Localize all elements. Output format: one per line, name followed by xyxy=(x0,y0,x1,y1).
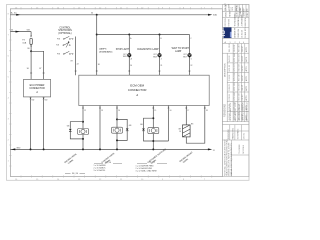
svg-text:GM RP: GM RP xyxy=(242,65,244,72)
svg-text:(STANDARD): (STANDARD) xyxy=(99,50,113,53)
node fuse branch xyxy=(30,50,32,52)
connector J1 ECU POWER CONNECTOR A xyxy=(24,79,51,97)
node K2 top xyxy=(116,118,118,120)
wire lamp rail xyxy=(97,34,190,36)
svg-text:ECM OEM: ECM OEM xyxy=(130,83,144,87)
svg-text:A: A xyxy=(35,91,38,94)
svg-text:A3: A3 xyxy=(246,9,249,11)
pin mark fuse top xyxy=(30,36,32,38)
wire lamps riser xyxy=(96,15,98,75)
svg-text:R8: R8 xyxy=(191,123,193,125)
svg-text:ECN 1044: ECN 1044 xyxy=(234,53,236,61)
wire K1 diode branch xyxy=(70,122,83,129)
wire aux return xyxy=(168,106,170,142)
svg-text:31: 31 xyxy=(160,65,162,67)
pin mark ECM bottom p4 xyxy=(153,107,155,109)
svg-text:3: 3 xyxy=(239,42,240,44)
ground bus wire xyxy=(10,148,208,150)
pin mark J1 out left xyxy=(30,98,32,100)
svg-text:REL 10-02: REL 10-02 xyxy=(229,43,231,52)
lamp column L3 wait to start lamp xyxy=(189,35,191,76)
svg-text:E 02-04: E 02-04 xyxy=(229,94,231,100)
heater R1 xyxy=(183,125,191,137)
node bus j1 xyxy=(30,148,32,150)
diode D1 xyxy=(69,129,72,131)
pin mark lamps riser xyxy=(96,70,98,72)
svg-text:17: 17 xyxy=(187,110,189,112)
pin mark ECM bottom p7 xyxy=(204,107,206,109)
svg-text:6: 6 xyxy=(191,58,192,60)
svg-text:4: 4 xyxy=(161,58,162,60)
svg-text:DRAWN RP: DRAWN RP xyxy=(234,27,237,38)
wire K1 diode return xyxy=(70,132,83,139)
svg-text:SHUTDOWN: SHUTDOWN xyxy=(58,30,72,32)
svg-text:W07: W07 xyxy=(183,57,187,59)
title block rotated texts xyxy=(223,3,249,176)
svg-text:GM RP: GM RP xyxy=(242,113,244,120)
svg-text:GM RP: GM RP xyxy=(242,94,244,101)
svg-text:GM RP: GM RP xyxy=(242,84,244,91)
svg-text:ECN 1562: ECN 1562 xyxy=(234,102,236,110)
svg-text:C 04-03: C 04-03 xyxy=(229,75,231,81)
svg-text:13: 13 xyxy=(101,110,103,112)
diode D3 xyxy=(142,128,145,130)
svg-text:REV DET: REV DET xyxy=(238,92,240,101)
svg-text:16: 16 xyxy=(179,131,181,133)
off-page arrow W2 xyxy=(16,31,20,33)
svg-text:TD-JD6068: TD-JD6068 xyxy=(239,145,241,154)
pin mark J1 pin87 xyxy=(43,72,45,74)
svg-text:ECN 1298: ECN 1298 xyxy=(234,73,236,81)
pin mark ECM bottom p6 xyxy=(186,107,188,109)
svg-text:LAMP: LAMP xyxy=(175,50,182,53)
svg-text:12: 12 xyxy=(84,110,86,112)
node bus j6 xyxy=(152,148,154,150)
lamp column L1 stop light xyxy=(128,35,130,76)
svg-text:10A: 10A xyxy=(22,41,26,44)
diode D2 xyxy=(126,128,129,130)
svg-text:1 = 14 GA PWR FEED: 1 = 14 GA PWR FEED xyxy=(136,164,155,167)
svg-text:REV DET: REV DET xyxy=(238,102,240,111)
svg-text:REV DET: REV DET xyxy=(238,63,240,72)
fuse F1 xyxy=(30,38,32,44)
pin mark ECM bottom p1 xyxy=(82,107,84,109)
wire J1 ground right xyxy=(43,97,45,149)
wire K2 diode return xyxy=(117,131,127,140)
svg-text:DIAGNOSTIC LAMP: DIAGNOSTIC LAMP xyxy=(137,48,159,51)
lamp L3 xyxy=(188,53,192,57)
lamp L2 xyxy=(158,53,162,57)
svg-text:2 = 16 GA BLK: 2 = 16 GA BLK xyxy=(94,167,107,170)
svg-text:6068 SFM: 6068 SFM xyxy=(245,17,247,26)
svg-text:ECN 1633: ECN 1633 xyxy=(234,112,236,120)
svg-text:4: 4 xyxy=(243,42,244,44)
svg-text:G 11-04: G 11-04 xyxy=(229,114,231,120)
svg-text:REV DET: REV DET xyxy=(238,111,240,120)
svg-text:SFM: SFM xyxy=(232,7,234,11)
svg-text:B+ 30: B+ 30 xyxy=(11,13,17,15)
pin mark fuse bottom xyxy=(30,45,32,47)
svg-text:18: 18 xyxy=(206,110,208,112)
svg-text:CONTROL: CONTROL xyxy=(59,27,71,29)
svg-text:APPR: APPR xyxy=(245,66,248,72)
node lamp2 xyxy=(159,34,161,36)
svg-text:30: 30 xyxy=(98,64,100,66)
svg-text:APPR: APPR xyxy=(245,95,248,101)
svg-text:REV DET: REV DET xyxy=(238,53,240,62)
svg-text:APPR: APPR xyxy=(245,105,248,111)
node K3 bottom xyxy=(152,140,154,142)
relay coil K3 xyxy=(148,128,159,134)
svg-text:F 06-04: F 06-04 xyxy=(229,104,231,110)
svg-text:(OPTIONAL): (OPTIONAL) xyxy=(58,32,71,35)
svg-text:MANUAL FOR TORQUE AND PINOUTS.: MANUAL FOR TORQUE AND PINOUTS. xyxy=(230,142,233,176)
svg-text:3 = 14 GA YEL: 3 = 14 GA YEL xyxy=(94,169,106,172)
svg-text:APPR: APPR xyxy=(245,114,248,120)
lamp column L2 diagnostic lamp xyxy=(159,35,161,76)
wire K1 main xyxy=(82,106,84,150)
node K1 top xyxy=(82,121,84,123)
svg-text:REVISIONS: REVISIONS xyxy=(224,104,227,117)
svg-text:GND: GND xyxy=(16,147,21,149)
node K1 bottom xyxy=(82,138,84,140)
wire node to connector pin xyxy=(30,51,32,79)
pin mark J1 pin30 xyxy=(30,72,32,74)
svg-text:MARINE ENG: MARINE ENG xyxy=(231,127,234,139)
svg-text:ECN 1355: ECN 1355 xyxy=(234,83,236,91)
svg-text:MARINE LLC: MARINE LLC xyxy=(237,15,240,27)
wire K2 main xyxy=(116,106,118,150)
svg-text:CHKD GM: CHKD GM xyxy=(238,29,240,38)
pin mark ECM bottom p2 xyxy=(99,107,101,109)
svg-text:30: 30 xyxy=(130,65,132,67)
svg-text:A 11-02: A 11-02 xyxy=(228,56,231,62)
wire K3 diode branch xyxy=(144,118,154,128)
relay coil K2 xyxy=(112,127,123,133)
svg-text:GM RP: GM RP xyxy=(242,45,244,52)
node K3 top xyxy=(152,117,154,119)
wire branch to second pin xyxy=(31,51,43,79)
svg-text:APPR: APPR xyxy=(245,56,248,62)
svg-text:ECN 1171: ECN 1171 xyxy=(234,63,236,71)
svg-text:STOP LIGHT: STOP LIGHT xyxy=(116,49,130,51)
relay coil K1 xyxy=(78,129,89,135)
svg-text:GM RP: GM RP xyxy=(242,104,244,111)
svg-text:30A: 30A xyxy=(213,14,217,17)
wire shutdown input xyxy=(75,37,77,76)
svg-text:15: 15 xyxy=(154,110,156,112)
sheet edge xyxy=(7,5,250,181)
svg-text:JOHN DEERE: JOHN DEERE xyxy=(242,14,244,27)
svg-text:DESCRIPTION: DESCRIPTION xyxy=(225,63,227,77)
node bus j3 xyxy=(82,148,84,150)
svg-text:GM RP: GM RP xyxy=(242,74,244,81)
harness label D xyxy=(179,151,195,165)
pin mark ECM bottom p5 xyxy=(168,107,170,109)
svg-text:TD: TD xyxy=(221,30,227,37)
pin mark J1 out right xyxy=(43,98,45,100)
svg-text:APPR: APPR xyxy=(245,85,248,91)
svg-text:2: 2 xyxy=(235,42,236,44)
node bus j4 xyxy=(99,148,101,150)
node W1/riser junction xyxy=(96,14,98,16)
off-page arrow bus right xyxy=(208,148,212,150)
off-page arrow bus left xyxy=(11,148,15,150)
svg-text:31: 31 xyxy=(213,150,215,152)
svg-text:APPR: APPR xyxy=(245,76,248,82)
svg-text:30: 30 xyxy=(91,13,93,15)
svg-text:32: 32 xyxy=(190,65,192,67)
node bus j5 xyxy=(116,148,118,150)
svg-text:12V DC: 12V DC xyxy=(243,132,245,139)
node bus j2 xyxy=(43,148,45,150)
svg-text:SCALE NTS: SCALE NTS xyxy=(244,27,247,38)
svg-text:ECN 1490: ECN 1490 xyxy=(234,92,236,100)
svg-text:36 | 14: 36 | 14 xyxy=(105,162,112,164)
wire R1 left xyxy=(185,106,187,125)
pin mark shutdown xyxy=(75,70,77,72)
wire J1 ground left xyxy=(30,97,32,149)
svg-text:14: 14 xyxy=(118,110,120,112)
harness label A xyxy=(64,152,80,166)
svg-text:LAMPS: LAMPS xyxy=(99,48,107,51)
svg-text:1 = 16 GA RED: 1 = 16 GA RED xyxy=(94,164,107,167)
svg-text:3 = 12 GA B+ LEAD WIRE: 3 = 12 GA B+ LEAD WIRE xyxy=(136,170,158,173)
lamp L1 xyxy=(127,53,131,57)
svg-text:DWG: DWG xyxy=(236,6,238,11)
svg-text:2 = 14 GA GROUND: 2 = 14 GA GROUND xyxy=(136,167,153,170)
svg-text:APPR: APPR xyxy=(245,46,248,52)
svg-text:REV 2: REV 2 xyxy=(247,11,249,16)
svg-text:22: 22 xyxy=(77,64,79,66)
drawing frame xyxy=(10,9,222,177)
wire spare to bus xyxy=(99,106,101,150)
svg-text:WAIT TO START: WAIT TO START xyxy=(172,47,190,50)
svg-text:REV DET: REV DET xyxy=(238,72,240,81)
svg-text:36 | 14: 36 | 14 xyxy=(72,173,79,175)
node lamp1 xyxy=(128,34,130,36)
svg-text:W09: W09 xyxy=(123,56,127,58)
svg-text:SYSTEM: SYSTEM xyxy=(229,19,231,27)
svg-text:A: A xyxy=(135,93,138,97)
svg-text:GM RP: GM RP xyxy=(242,55,244,62)
svg-text:14 | 12: 14 | 12 xyxy=(149,162,156,164)
svg-text:6068SFM50: 6068SFM50 xyxy=(228,129,230,139)
harness label C xyxy=(147,148,168,166)
svg-text:CONNECTOR: CONNECTOR xyxy=(29,87,45,90)
connector U1 ECM OEM CONNECTOR A xyxy=(79,75,209,105)
svg-text:16: 16 xyxy=(170,110,172,112)
svg-text:CONNECTOR: CONNECTOR xyxy=(128,88,147,92)
svg-text:W08: W08 xyxy=(153,57,157,59)
logo TD xyxy=(224,27,232,38)
wire K3 main xyxy=(152,106,154,150)
title block xyxy=(223,5,249,177)
svg-text:JD 6068: JD 6068 xyxy=(229,4,231,11)
wire R1 return loop xyxy=(186,106,205,144)
svg-text:SCHEMATIC: SCHEMATIC xyxy=(237,128,240,139)
svg-text:TECNODIESEL: TECNODIESEL xyxy=(235,13,237,26)
wire W1 battery feed xyxy=(10,14,208,16)
svg-text:D 09-03: D 09-03 xyxy=(229,84,231,90)
wire K2 diode branch xyxy=(117,119,127,128)
wire fuse to node xyxy=(30,45,32,52)
node K2 bottom xyxy=(116,139,118,141)
wire W2 ignition feed xyxy=(10,32,31,37)
wire K3 diode return rail xyxy=(144,131,169,141)
svg-text:CONTROL: CONTROL xyxy=(225,18,227,27)
pin mark ECM bottom p3 xyxy=(116,107,118,109)
svg-text:B 01-03: B 01-03 xyxy=(229,65,231,71)
svg-text:10-02-02: 10-02-02 xyxy=(234,45,236,52)
harness label B xyxy=(101,152,118,167)
off-page arrow W1 left xyxy=(16,14,20,16)
off-page arrow W1 right xyxy=(208,14,212,16)
svg-text:REV DET: REV DET xyxy=(238,43,240,52)
svg-text:P/N 1077: P/N 1077 xyxy=(225,3,227,11)
svg-text:REV DET: REV DET xyxy=(238,82,240,91)
svg-text:10-02-04: 10-02-04 xyxy=(242,30,244,38)
svg-text:SK-2204-B: SK-2204-B xyxy=(243,144,245,154)
node rail junction xyxy=(96,34,98,36)
